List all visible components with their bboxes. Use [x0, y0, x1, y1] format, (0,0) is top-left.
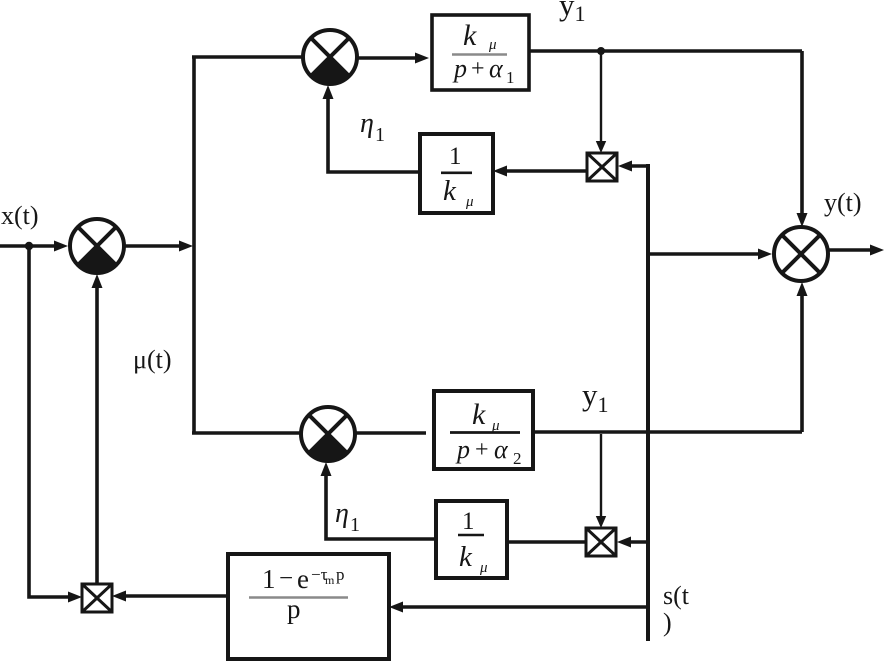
- wire B5 output to X3: [122, 594, 228, 598]
- node input junction dot: [25, 242, 33, 250]
- wire s-line into B5 right: [398, 605, 648, 609]
- block B2 1/k: [420, 134, 493, 213]
- svg-text:1: 1: [262, 564, 276, 594]
- svg-text:2: 2: [513, 449, 522, 468]
- wire down right side to M4 top: [800, 51, 804, 220]
- arrowhead into X1 top: [596, 141, 606, 153]
- wire B1 output across top: [529, 49, 802, 53]
- svg-text:k: k: [459, 541, 473, 573]
- wire branch down to X2: [600, 434, 602, 521]
- wire X2 output to B4: [507, 540, 586, 544]
- wire X1 output to B2: [502, 169, 587, 173]
- svg-text:+: +: [471, 56, 485, 82]
- svg-text:1: 1: [462, 508, 475, 535]
- wire riser to M3: [192, 431, 301, 435]
- arrowhead into B2 right: [493, 166, 507, 177]
- wire B2 output left and up to M2 bottom: [328, 92, 420, 172]
- wire x(t) input horizontal: [0, 244, 58, 248]
- arrowhead into B1: [415, 53, 429, 64]
- svg-text:η: η: [360, 108, 374, 139]
- svg-text:k: k: [463, 19, 477, 52]
- svg-text:μ: μ: [465, 194, 474, 210]
- svg-text:p: p: [452, 54, 467, 83]
- wire B4 output left and up to M3 bottom: [326, 470, 436, 539]
- node dot top: [597, 47, 605, 55]
- arrowhead into X3 right: [112, 591, 126, 602]
- block B3 k/(p+a2): [434, 391, 533, 469]
- wire up to M4 bottom: [800, 289, 804, 432]
- svg-text:e: e: [297, 564, 309, 594]
- arrowhead into riser: [179, 241, 193, 252]
- multiplier M4 y(t) (no fill): [774, 227, 828, 281]
- arrowhead into M4 top: [797, 213, 808, 227]
- multiplier box X2: [586, 528, 616, 556]
- svg-text:1: 1: [375, 124, 385, 146]
- svg-text:): ): [663, 608, 672, 637]
- arrowhead into X1 right: [618, 161, 632, 172]
- multiplier M3 (bottom, bottom quadrant filled): [301, 407, 355, 461]
- wire s vertical line: [646, 164, 650, 641]
- block B5 (1-e^-tau p)/p: [228, 554, 389, 659]
- svg-text:p: p: [287, 594, 301, 624]
- arrowhead into M1 left: [54, 241, 68, 252]
- svg-text:μ: μ: [488, 37, 497, 53]
- arrowhead into X2 top: [596, 516, 606, 528]
- wire M2 output to B1: [357, 56, 419, 60]
- svg-text:1: 1: [449, 143, 462, 170]
- wire B3 output across to right riser: [533, 430, 802, 434]
- svg-text:1: 1: [350, 514, 360, 536]
- svg-text:s(t: s(t: [663, 581, 690, 610]
- wire mu feedback X3 up to M1 bottom: [95, 281, 99, 584]
- svg-text:x(t): x(t): [1, 201, 39, 230]
- block B4 1/k bottom: [436, 501, 507, 578]
- svg-text:α: α: [489, 54, 504, 83]
- arrowhead into X3 left: [68, 592, 82, 603]
- arrowhead into X2 right: [617, 537, 631, 548]
- wire riser vertical: [192, 57, 196, 433]
- svg-text:−: −: [279, 565, 293, 592]
- multiplier M1 (left, bottom quadrant filled): [70, 219, 124, 273]
- arrowhead output right edge: [870, 245, 884, 256]
- wire M3 output to B3: [355, 431, 426, 435]
- arrowhead into M4 bottom: [797, 282, 808, 296]
- svg-text:k: k: [443, 175, 457, 207]
- block B1 k/(p+a1): [432, 15, 529, 90]
- arrowhead into M2 bottom: [323, 85, 334, 99]
- svg-text:η: η: [335, 498, 349, 529]
- svg-text:+: +: [475, 437, 489, 463]
- svg-text:μ(t): μ(t): [133, 345, 171, 374]
- svg-text:μ: μ: [479, 560, 488, 576]
- multiplier box X1: [587, 153, 617, 181]
- svg-text:m: m: [325, 573, 335, 587]
- wire M1 output to riser: [124, 244, 184, 248]
- multiplier box X3: [82, 584, 112, 612]
- arrowhead into M4 left: [758, 249, 772, 260]
- arrowhead into M3 bottom: [321, 462, 332, 476]
- svg-text:y(t): y(t): [824, 188, 862, 217]
- svg-text:p: p: [455, 435, 470, 464]
- wire riser to M2: [192, 55, 303, 59]
- wire junction down-left branch to X3: [29, 246, 72, 597]
- svg-text:k: k: [472, 398, 486, 431]
- wire s-line corner to X1 right: [630, 164, 648, 168]
- svg-text:α: α: [494, 435, 509, 464]
- wire s-line to X2 right: [629, 540, 648, 544]
- svg-text:1: 1: [506, 68, 515, 87]
- multiplier M2 (top, bottom quadrant filled): [303, 30, 357, 84]
- arrowhead into B5 right: [389, 602, 403, 613]
- arrowhead into M1 bottom: [92, 274, 103, 288]
- wire node down to X1: [600, 53, 602, 146]
- wire s-line to M4 left: [648, 252, 763, 256]
- wire M4 output: [828, 248, 874, 252]
- svg-text:p: p: [336, 565, 345, 584]
